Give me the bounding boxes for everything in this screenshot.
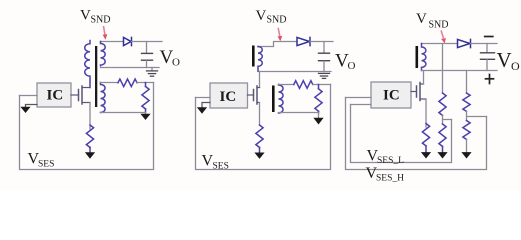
resistor R9 (divider lower, column B, circuit 3) (439, 124, 446, 146)
svg-text:SND: SND (91, 14, 111, 25)
wire: rail to MOSFET drain (circuit 2) (259, 72, 261, 88)
wire: aux winding bottom (101, 112, 146, 114)
wire: rail tap to resistor column C (circuit 3) (466, 71, 468, 94)
svg-text:V: V (256, 8, 267, 24)
svg-text:IC: IC (220, 89, 237, 105)
label V_SND (circuit 1) (80, 8, 111, 26)
red annotation arrow (circuit 3) (441, 31, 446, 43)
IC U3 (circuit 3) (371, 82, 411, 108)
wire: divider node to feedback tap (137, 82, 154, 84)
wire: feedback loop V_SES_H (circuit 3) (346, 98, 487, 170)
transformer T1 secondary winding (101, 42, 106, 66)
transformer T3 winding (422, 44, 426, 71)
ground arrow (aux divider, circuit 1) (140, 113, 150, 121)
resistor R10 (divider upper, column C, circuit 3) (463, 93, 470, 111)
ground arrow (column C, circuit 3) (461, 139, 471, 158)
label V_O (circuit 2) (335, 51, 356, 73)
wire: feedback loop V_SES (circuit 2) (196, 85, 331, 170)
resistor R7 (source sense, circuit 3) (422, 124, 429, 146)
resistor R6 (aux vertical, circuit 2) (315, 85, 322, 113)
ground arrow (IC pin, circuit 2) (197, 103, 210, 114)
resistor R3 (aux vertical, circuit 1) (142, 83, 149, 113)
label V_SES_H (circuit 3) (366, 165, 405, 184)
resistor R8 (divider upper, column B, circuit 3) (439, 93, 446, 115)
capacitor C3 (output) (481, 44, 495, 71)
ground arrow (aux divider, circuit 2) (313, 113, 323, 125)
svg-text:SES: SES (213, 161, 229, 171)
svg-text:SND: SND (429, 20, 449, 31)
resistor R11 (divider lower, column C, circuit 3) (463, 121, 470, 140)
wire: divider node to feedback tap (circuit 2) (313, 84, 331, 86)
wire: feedback loop V_SES_L (circuit 3) (351, 105, 452, 163)
svg-text:IC: IC (47, 88, 64, 104)
svg-text:V: V (80, 8, 91, 24)
label V_O (circuit 3) (497, 48, 521, 73)
capacitor C2 (output) (319, 42, 330, 72)
plus sign (circuit 3) (486, 75, 494, 84)
IC U2 (circuit 2) (210, 83, 248, 108)
diode D2 (297, 37, 310, 45)
transformer T1 primary winding (85, 41, 90, 88)
wire: feedback loop V_SES (circuit 1) (20, 83, 154, 170)
ground arrow (IC pin, circuit 1) (20, 105, 37, 114)
transformer T2 aux winding (279, 84, 284, 113)
transformer T2 secondary winding (258, 47, 262, 72)
diode D3 (458, 39, 471, 47)
wire: diode cathode to output corner (circuit 3) (471, 43, 498, 45)
transistor Q2 (MOSFET, circuit 2) (248, 86, 260, 104)
wire: V_SES_H input to IC (circuit 3) (346, 97, 372, 99)
transistor Q1 (MOSFET, circuit 1) (71, 86, 90, 104)
ground arrow (source, circuit 2) (254, 147, 264, 159)
wire: source to sense resistor (circuit 2) (259, 103, 261, 126)
resistor R1 (source sense, circuit 1) (86, 125, 93, 147)
wire: aux winding bottom (circuit 2) (279, 112, 319, 114)
IC U1 (circuit 1) (37, 83, 71, 107)
wire: divider tap V_SES_H (circuit 3) (467, 111, 487, 120)
ground arrow (column B, circuit 3) (437, 146, 447, 158)
capacitor C1 (output) (142, 42, 153, 68)
resistor R4 (source sense, circuit 2) (256, 125, 263, 147)
ground (output, circuit 1) (147, 68, 158, 77)
label V_SES (circuit 1) (28, 151, 55, 170)
svg-text:O: O (511, 59, 520, 73)
transformer T3 core (416, 46, 419, 68)
wire: feedback input to IC (circuit 2) (196, 97, 211, 99)
wire: source to sense resistor (circuit 3) (425, 99, 427, 127)
diode D1 (124, 37, 132, 45)
ground (output, circuit 2) (319, 73, 330, 78)
wire: winding top to diode anode (circuit 3) (422, 43, 458, 45)
wire: aux winding top to divider (circuit 2) (279, 84, 294, 86)
svg-text:SND: SND (267, 15, 287, 26)
wire: diode cathode to output stub (132, 41, 163, 43)
transformer T2 aux core (272, 86, 275, 113)
resistor R2 (aux horizontal, circuit 1) (118, 79, 137, 87)
svg-text:SES_H: SES_H (376, 174, 404, 184)
label V_SND (circuit 3) (416, 11, 449, 31)
ground arrow (source, circuit 1) (85, 147, 95, 158)
transformer T1 core (95, 46, 97, 107)
transistor Q3 (MOSFET, circuit 3) (411, 83, 426, 101)
label V_O (circuit 1) (160, 47, 181, 69)
svg-text:IC: IC (383, 88, 400, 104)
ground arrow (source, circuit 3) (421, 146, 431, 159)
wire: divider tap V_SES_L (circuit 3) (443, 115, 452, 124)
wire: output return rail (circuit 1) (101, 65, 160, 68)
wire: secondary top to diode anode (101, 41, 124, 43)
resistor R5 (aux horizontal, circuit 2) (294, 81, 313, 89)
wire: return rail (circuit 3) (422, 70, 498, 72)
wire: aux winding top to divider (101, 82, 119, 84)
svg-text:O: O (172, 57, 180, 69)
svg-text:V: V (416, 11, 427, 27)
wire: source to sense resistor (89, 103, 91, 130)
wire: return rail (circuit 2) (258, 71, 331, 73)
svg-text:SES_L: SES_L (377, 156, 404, 166)
wire: switch node sense line (circuit 3) (442, 44, 444, 94)
red annotation arrow (circuit 2) (278, 29, 283, 42)
wire: winding top jog to diode anode (circuit 2) (258, 42, 297, 47)
minus sign (circuit 3) (485, 36, 493, 38)
wire: drain to rail (circuit 3) (423, 71, 425, 85)
wire: V_SES_L input to IC (circuit 3) (351, 104, 372, 106)
transformer T2 core (secondary) (252, 46, 255, 67)
svg-text:SES: SES (38, 160, 54, 170)
transformer T1 auxiliary winding (101, 83, 106, 113)
red annotation arrow (circuit 1) (103, 27, 108, 40)
wire: feedback input to IC (20, 95, 38, 97)
label V_SES (circuit 2) (202, 153, 229, 172)
svg-text:O: O (348, 60, 356, 72)
svg-text:V: V (497, 48, 512, 72)
label V_SES_L (circuit 3) (367, 148, 405, 166)
wire: diode cathode to output stub (circuit 2) (310, 41, 333, 43)
label V_SND (circuit 2) (256, 8, 287, 26)
